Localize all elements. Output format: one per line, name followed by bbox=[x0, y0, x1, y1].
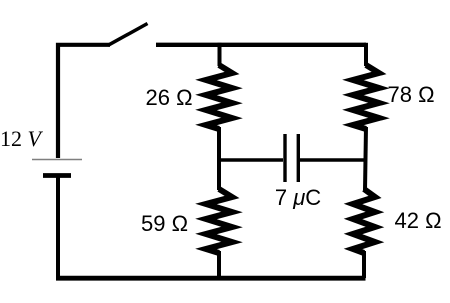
wire: right branch upper lead bbox=[364, 43, 368, 66]
battery thin plate (+) bbox=[32, 159, 82, 161]
wire: right branch middle segment (78 ohm to 42 ohm through node) bbox=[365, 127, 366, 190]
svg-text:26 Ω: 26 Ω bbox=[145, 85, 192, 110]
wire: top horizontal from switch right contact to top-right corner bbox=[156, 43, 366, 47]
wire: battery - terminal down to bottom-left corner bbox=[56, 177, 60, 278]
wire: middle horizontal, left node to capacitor left plate bbox=[217, 158, 283, 161]
svg-text:12 V: 12 V bbox=[0, 126, 44, 151]
capacitor right plate bbox=[297, 134, 300, 182]
resistor 78 ohm zigzag bbox=[353, 65, 379, 129]
wire: right branch lower lead bbox=[362, 251, 366, 278]
svg-text:78 Ω: 78 Ω bbox=[387, 82, 434, 107]
wire: left branch lower lead bbox=[217, 251, 221, 278]
resistor 26 ohm zigzag bbox=[206, 65, 232, 129]
battery thick plate (-) bbox=[43, 173, 71, 178]
wire: left branch top lead bbox=[218, 43, 222, 66]
resistor 42 ohm zigzag bbox=[353, 189, 375, 253]
capacitor left plate bbox=[283, 134, 286, 182]
switch S1 (open blade) bbox=[108, 24, 148, 46]
wire: left branch middle segment (26 ohm to 59 ohm through node) bbox=[217, 127, 221, 190]
resistor 59 ohm zigzag bbox=[206, 189, 232, 253]
wire: battery + terminal up and across to switch left contact bbox=[58, 45, 110, 158]
wire: middle horizontal, capacitor right plate to right node bbox=[299, 158, 367, 161]
svg-text:42 Ω: 42 Ω bbox=[394, 208, 441, 233]
wire: bottom horizontal bbox=[56, 276, 366, 281]
svg-text:59 Ω: 59 Ω bbox=[141, 211, 188, 236]
svg-text:7 μC: 7 μC bbox=[275, 185, 321, 210]
